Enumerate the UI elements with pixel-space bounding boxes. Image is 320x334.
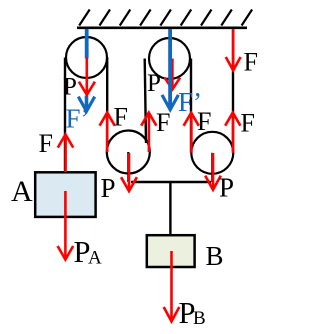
- svg-text:B: B: [193, 308, 206, 329]
- svg-text:P: P: [147, 70, 161, 97]
- force PB red down arrow under block B: [164, 251, 180, 321]
- ceiling: [77, 10, 252, 28]
- force F red up arrow rope ceiling-mp2: [225, 113, 240, 153]
- svg-text:P: P: [219, 173, 234, 203]
- svg-text:P: P: [101, 173, 116, 203]
- movable pulley 2: [191, 132, 233, 174]
- wire rope left to block A: [64, 58, 66, 174]
- force P red arrow fp2: [165, 59, 180, 90]
- force F red up arrow rope fp2-mp2: [184, 113, 199, 153]
- wire axle mp2 to bar: [211, 153, 213, 182]
- force F red up arrow rope A: [58, 135, 73, 173]
- force P red down arrow mp2: [205, 153, 221, 190]
- force PA red down arrow under block A: [58, 191, 74, 260]
- movable pulley 1: [107, 131, 150, 174]
- wire rope fp2-mp1: [145, 59, 146, 144]
- wire rope fp1-mp1: [106, 58, 108, 153]
- force F red down arrow top right: [226, 29, 241, 70]
- force F red up arrow rope fp2-mp1: [141, 113, 156, 152]
- svg-text:F: F: [244, 48, 258, 77]
- fixed pulley 1: [66, 37, 107, 78]
- svg-text:F: F: [156, 108, 170, 137]
- svg-text:P: P: [63, 74, 77, 101]
- svg-text:A: A: [11, 175, 33, 208]
- svg-text:F: F: [241, 109, 255, 138]
- svg-text:B: B: [206, 241, 224, 271]
- svg-text:A: A: [88, 248, 102, 269]
- force F red up arrow rope fp1-mp1: [100, 113, 115, 152]
- wire rope fp2-mp2: [190, 59, 192, 153]
- svg-text:F: F: [197, 107, 211, 136]
- force P red down arrow mp1: [121, 153, 137, 191]
- svg-text:F’: F’: [66, 103, 90, 133]
- wire rope ceiling-mp2: [232, 29, 234, 153]
- bar connecting movable pulleys: [131, 181, 211, 183]
- wire axle mp1 to bar: [127, 152, 129, 182]
- svg-text:F: F: [39, 129, 53, 158]
- block B: [147, 235, 195, 267]
- force P red arrow fp1: [79, 58, 95, 95]
- block A: [35, 172, 95, 217]
- fixed pulley 2: [149, 38, 190, 79]
- wire bar to block B: [169, 182, 171, 236]
- force F' blue arrow fp2: [162, 29, 178, 110]
- svg-text:F: F: [114, 102, 128, 131]
- force F' blue arrow fp1: [78, 29, 94, 111]
